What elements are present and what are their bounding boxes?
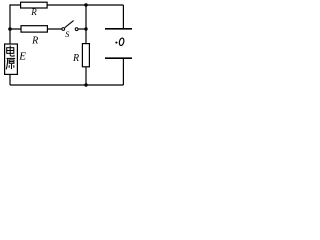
junction dot switch / branch <box>84 27 87 30</box>
junction dot left rail / row2 <box>8 27 12 31</box>
svg-text:R: R <box>72 53 79 64</box>
resistor R1 (top) <box>21 2 47 17</box>
resistor R3 (vertical) <box>72 44 89 67</box>
wire middle vertical branch <box>85 5 87 85</box>
svg-text:S: S <box>65 29 70 39</box>
glyph 源 <box>6 58 15 69</box>
capacitor top plate <box>105 5 132 29</box>
junction dot bottom rail / branch <box>84 83 87 86</box>
node O <box>115 38 124 46</box>
wire switch to junction <box>78 28 86 30</box>
svg-text:E: E <box>18 51 26 63</box>
capacitor bottom plate <box>105 58 132 85</box>
power source box 电源 <box>5 44 27 74</box>
wire second row left segment <box>10 28 62 30</box>
resistor R2 (second row) <box>21 26 47 47</box>
wire top rail <box>10 4 123 6</box>
junction dot top rail / branch <box>84 3 87 6</box>
wire bottom rail <box>10 84 123 86</box>
switch S <box>62 21 78 39</box>
glyph 电 <box>7 45 14 56</box>
svg-text:R: R <box>30 7 37 17</box>
wire left rail <box>9 4 11 85</box>
svg-text:R: R <box>31 35 38 46</box>
